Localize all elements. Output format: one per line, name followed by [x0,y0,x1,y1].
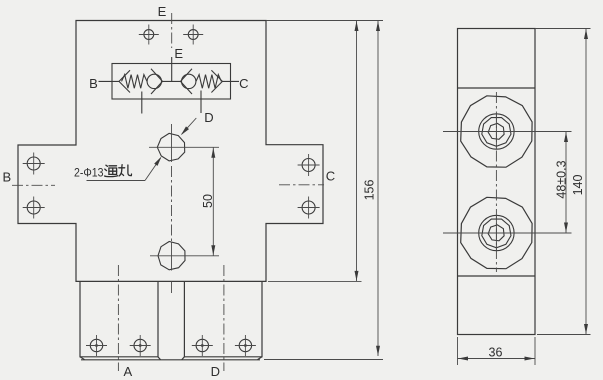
foot bolt hole at x=96.5 [90,339,102,351]
lower through hole 2-Phi13 [158,242,185,270]
centerline E (top) [171,13,173,48]
foot bolt hole at x=202.3 [196,339,208,351]
extension top for 140 [535,28,591,30]
vertical centerline through holes [171,124,173,162]
svg-text:2-Φ13: 2-Φ13 [74,165,104,179]
svg-text:A: A [123,364,132,379]
centerline solid over upper knob [495,114,497,149]
svg-text:D: D [204,110,213,125]
knob ring circle [479,215,514,250]
middle link line [163,80,181,82]
knob ring circle [479,114,514,149]
ear bolt hole (33.7,207.5) [27,201,40,214]
left foot chamfers [80,357,161,360]
top hole at x=148.8 [144,30,154,40]
svg-text:140: 140 [571,175,585,196]
svg-text:E: E [174,46,183,61]
leader underline [87,180,146,182]
feet base plate line [81,359,260,361]
check valve 1 ball [147,74,161,88]
dimension 50 line [212,147,214,255]
leader arrow from D [182,118,197,134]
adjuster knob at y=233 outer [461,197,532,268]
hanzi kong (vector) [119,165,132,176]
extension line feet bottom [264,359,383,361]
svg-text:36: 36 [489,345,503,359]
dimension 36 line [458,358,536,360]
check valve 1 seat left [119,70,130,92]
svg-text:48±0.3: 48±0.3 [555,160,569,198]
extension line top right [266,20,383,22]
port C line [222,80,239,82]
pilot line 1 [141,92,143,114]
ear bolt hole (308.6,165) [302,159,315,172]
lower hole horizontal centerline + extension [150,255,219,257]
svg-text:B: B [89,76,98,91]
dimension 140 line [585,29,587,335]
pilot line 2 (D) [200,91,202,114]
svg-text:156: 156 [363,180,377,201]
svg-text:E: E [158,4,167,19]
adjuster knob at y=131.5 outer [461,96,532,167]
hanzi tong (vector) [105,165,118,176]
svg-text:C: C [239,76,248,91]
foot bolt hole at x=140.2 [134,339,146,351]
ear bolt hole (308.6,207.5) [302,201,315,214]
centerline C (right ear) [279,184,324,186]
dimension 156 line [377,21,379,357]
valve schematic box [112,64,231,100]
upper through hole 2-Phi13 [157,133,184,161]
port E line into box [171,57,173,81]
check valve 2 spring [196,75,221,89]
dimension body height line [356,21,358,282]
knob horizontal centerline [443,131,572,133]
check valve 1 spring [122,75,148,89]
svg-text:B: B [2,170,11,185]
right foot chamfers [182,357,262,360]
centerline D (right foot) [223,265,225,371]
leader diagonal [145,158,161,181]
knob inner polygon [488,123,504,139]
svg-text:50: 50 [201,194,215,208]
port B line [99,80,120,82]
valve body outline front view [18,21,323,282]
right mounting foot [184,281,262,356]
foot bolt hole at x=245.4 [239,339,251,351]
check valve 1 seat on ball [151,69,163,94]
side view lower section line [458,275,536,277]
side view vertical centerline [495,92,497,272]
check valve 2 seat right [211,70,222,92]
side view upper section line [458,87,536,89]
svg-text:C: C [326,169,335,184]
left mounting foot [80,281,158,356]
knob horizontal centerline [443,232,572,234]
extension left for 36 [457,337,459,365]
top hole at x=193.2 [188,30,198,40]
upper hole horizontal centerline + extension [149,146,219,148]
extension right for 36 [534,337,536,365]
side view body rectangle [458,29,536,335]
dimension 48 line [565,132,567,234]
centerline solid over lower knob [495,216,497,251]
extension bottom for 140 [537,334,591,336]
ear bolt hole (33.7,163.5) [27,157,40,170]
knob inner polygon [488,225,504,241]
centerline B (left ear) [12,184,55,186]
check valve 2 seat on ball [181,69,193,94]
knob ring polygon [482,118,511,147]
check valve 2 ball [182,74,196,88]
knob ring polygon [482,219,511,248]
svg-text:D: D [211,364,220,379]
extension line body bottom [268,280,362,282]
centerline A (left foot) [117,265,119,371]
